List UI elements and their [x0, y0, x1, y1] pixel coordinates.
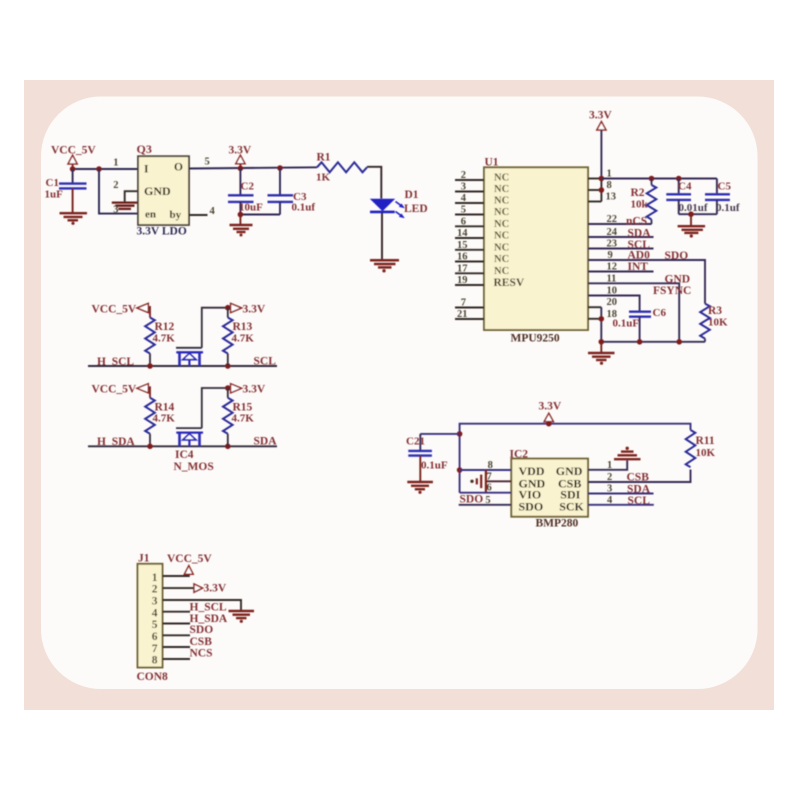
svg-text:20: 20 [607, 297, 618, 308]
svg-text:NC: NC [494, 242, 509, 253]
wire LED to ground [381, 213, 383, 260]
node R13/SCL [225, 363, 231, 369]
pin 23 SCL wire [588, 248, 654, 250]
svg-text:CSB: CSB [627, 471, 650, 483]
pin 6 wire (VIO) [460, 492, 512, 494]
wire Q3 output rail [189, 167, 317, 168]
wire C2-C3 bottom [240, 214, 280, 216]
svg-text:C2: C2 [241, 180, 255, 192]
svg-text:3.3V: 3.3V [539, 401, 562, 413]
J1 pin7 stub [163, 646, 191, 648]
wire R1 to LED [367, 167, 381, 199]
pin 5 stub (SDO) [459, 504, 512, 506]
svg-text:NC: NC [494, 231, 509, 242]
pin 8 wire (VDD) [460, 469, 512, 471]
svg-text:2: 2 [461, 170, 466, 181]
svg-text:21: 21 [457, 309, 468, 320]
white schematic card [41, 97, 758, 690]
svg-text:0.1uf: 0.1uf [292, 201, 316, 213]
resistor R13 [223, 308, 254, 366]
resistor R15 [223, 388, 254, 446]
svg-text:R3: R3 [708, 305, 722, 317]
svg-text:GND: GND [144, 184, 171, 198]
svg-text:8: 8 [488, 460, 493, 471]
capacitor C2 [228, 168, 263, 214]
svg-text:4: 4 [210, 206, 216, 217]
svg-text:0.1uF: 0.1uF [613, 317, 640, 329]
LED D1 [370, 189, 428, 215]
node gnd rail pin11 [676, 339, 682, 345]
power net 3.3V (J1) [194, 583, 227, 595]
svg-text:LED: LED [404, 203, 428, 215]
node pin1/3.3V [599, 176, 605, 182]
svg-text:SDO: SDO [460, 493, 484, 505]
svg-text:R12: R12 [155, 321, 175, 333]
power net VCC_5V (SCL shifter) [92, 303, 151, 317]
svg-text:5: 5 [461, 205, 466, 216]
J1 pin numbers [152, 572, 158, 667]
svg-text:NC: NC [494, 173, 509, 184]
svg-text:6: 6 [487, 483, 492, 494]
pin 2 stub of Q3 [125, 191, 138, 201]
svg-text:1: 1 [152, 572, 158, 584]
svg-text:3: 3 [113, 204, 118, 215]
svg-text:0.01uf: 0.01uf [679, 202, 708, 214]
svg-text:N_MOS: N_MOS [174, 461, 214, 473]
svg-text:10uF: 10uF [239, 201, 263, 213]
capacitor C4 [666, 179, 708, 215]
node gnd rail C6 [637, 339, 643, 345]
capacitor C3 [268, 168, 316, 215]
J1 pin4 stub [163, 611, 191, 613]
wire en branch vertical [99, 169, 138, 214]
sideways ground at pin7 [477, 470, 486, 493]
wire 3.3V rail to C4 C5 [601, 178, 717, 180]
wire VCC rail to Q3 pin1 [73, 168, 138, 170]
node at en branch [96, 166, 102, 172]
node 3.3V/C2 [238, 166, 244, 172]
wire to ground stem [239, 215, 241, 225]
svg-text:3.3V: 3.3V [204, 583, 227, 595]
power net VCC_5V (SDA shifter) [92, 384, 151, 398]
svg-text:4.7K: 4.7K [153, 413, 176, 425]
svg-text:7: 7 [461, 298, 466, 309]
wire 3.3V rail BMP [460, 424, 691, 493]
svg-text:INT: INT [628, 261, 649, 273]
node C3 branch [277, 165, 283, 171]
svg-text:VCC_5V: VCC_5V [167, 553, 212, 565]
svg-text:3.3V: 3.3V [589, 109, 612, 121]
pin names inside IC2 [519, 464, 585, 514]
svg-text:C4: C4 [678, 180, 692, 192]
J1 pin6 stub [163, 634, 191, 636]
wire H_SDA bus [88, 445, 277, 447]
J1 pin8 stub [163, 658, 191, 660]
ground at Q3 pin2 [112, 203, 139, 209]
svg-text:SDA: SDA [628, 227, 652, 239]
J1 pin3 wire to ground [163, 600, 242, 610]
svg-text:NC: NC [494, 266, 509, 277]
ground below C2 [230, 225, 253, 232]
svg-text:7: 7 [487, 471, 492, 482]
power net 3.3V (SDA shifter) [231, 384, 266, 396]
svg-text:IC4: IC4 [175, 449, 194, 461]
svg-text:4: 4 [152, 607, 158, 619]
svg-text:FSYNC: FSYNC [653, 285, 691, 297]
node ground stem C4C5 [688, 211, 694, 217]
svg-text:5: 5 [205, 156, 210, 167]
node R15/SDA [225, 444, 231, 450]
svg-text:R2: R2 [631, 187, 645, 199]
svg-text:SCL: SCL [254, 355, 277, 367]
pin 11 GND wire [588, 283, 679, 342]
ground below D1 [370, 260, 399, 267]
resistor R1 [316, 151, 367, 183]
wire stem to ground MPU [600, 342, 602, 352]
node pin18 [599, 316, 605, 322]
node R14/H_SDA [147, 444, 153, 450]
pin 4 wire SCL [588, 504, 654, 506]
flipped ground at IC2 pin1 [614, 452, 641, 460]
node gate2/3.3V [225, 385, 231, 391]
wire stem to ground [690, 214, 692, 225]
svg-text:4.7K: 4.7K [153, 332, 176, 344]
svg-text:17: 17 [457, 263, 468, 274]
svg-text:19: 19 [457, 275, 468, 286]
svg-text:2: 2 [113, 180, 118, 191]
IC2 BMP280 [510, 448, 589, 529]
svg-text:SDA: SDA [627, 484, 651, 496]
svg-text:MPU9250: MPU9250 [511, 332, 560, 344]
capacitor C1 [45, 169, 87, 213]
pin 9 AD0 wire to R3 [588, 260, 705, 304]
node pin8 branch [457, 467, 463, 473]
node R12/H_SCL [147, 363, 153, 369]
svg-text:6: 6 [461, 216, 466, 227]
mosfet Q (SCL) gate wire [202, 308, 228, 348]
svg-text:GND: GND [665, 273, 691, 285]
svg-text:4.7K: 4.7K [232, 413, 255, 425]
mosfet IC4 gate wire [202, 388, 228, 428]
right pin stubs U1 (1,8,13 bracket) [588, 179, 601, 202]
svg-text:14: 14 [457, 228, 468, 239]
svg-text:I: I [144, 163, 149, 175]
svg-text:en: en [145, 208, 156, 220]
resistor R2 [631, 179, 657, 225]
svg-text:5: 5 [152, 619, 158, 631]
pin 3 wire SDA [588, 493, 654, 495]
svg-text:2: 2 [152, 584, 158, 596]
svg-text:1K: 1K [316, 171, 331, 183]
svg-text:R1: R1 [317, 151, 331, 163]
pin 24 SDA wire [588, 236, 654, 238]
svg-text:NC: NC [494, 207, 509, 218]
right pin numbers IC2 [607, 460, 613, 506]
pin 1 wire (GND) [588, 461, 627, 470]
pin 22 nCS wire [588, 223, 652, 225]
ground below C4 C5 [678, 226, 706, 233]
svg-text:BMP280: BMP280 [536, 518, 579, 530]
left pin stubs U1 [455, 180, 484, 319]
svg-text:NCS: NCS [190, 647, 213, 659]
svg-text:0.1uf: 0.1uf [716, 202, 740, 214]
svg-text:D1: D1 [405, 189, 419, 201]
svg-text:IC2: IC2 [510, 448, 529, 460]
node gnd rail left [599, 339, 605, 345]
node R2 top [649, 176, 655, 182]
svg-text:VCC_5V: VCC_5V [92, 384, 137, 396]
svg-text:7: 7 [152, 643, 158, 655]
wire C21 branch [420, 433, 459, 435]
svg-text:H_SCL: H_SCL [190, 602, 227, 614]
svg-text:VCC_5V: VCC_5V [51, 145, 96, 157]
ground below U1 [588, 353, 615, 360]
svg-text:AD0: AD0 [628, 249, 651, 261]
LED light arrows [396, 202, 405, 219]
svg-text:10K: 10K [708, 316, 728, 328]
resistor R11 [686, 430, 716, 467]
svg-text:Q3: Q3 [137, 142, 152, 156]
ground below C1 [60, 213, 88, 220]
capacitor C5 [705, 179, 740, 215]
svg-text:C1: C1 [46, 177, 59, 189]
svg-text:CSB: CSB [190, 636, 213, 648]
svg-text:8: 8 [607, 180, 612, 191]
svg-text:4.7K: 4.7K [232, 332, 255, 344]
svg-text:R15: R15 [233, 401, 253, 413]
right pin numbers U1 [606, 169, 618, 320]
svg-text:by: by [170, 209, 182, 221]
svg-text:SDO: SDO [519, 499, 544, 513]
J1 pin5 stub [163, 623, 191, 625]
wire H_SCL bus [88, 365, 277, 367]
pin 20 stub [588, 306, 601, 308]
ground below C21 [407, 482, 433, 489]
resistor R3 [700, 304, 728, 342]
node C4 top [676, 176, 682, 182]
node gate/3.3V [225, 305, 231, 311]
svg-text:R11: R11 [696, 435, 715, 447]
power net 3.3V (MPU) [589, 109, 612, 130]
capacitor C21 [406, 434, 448, 481]
svg-text:8: 8 [152, 655, 158, 667]
node 3.3V arrow [546, 421, 552, 427]
svg-text:SCK: SCK [559, 500, 584, 514]
svg-text:3.3V LDO: 3.3V LDO [137, 225, 187, 237]
regulator Q3 [137, 142, 190, 238]
svg-text:J1: J1 [138, 552, 150, 564]
svg-text:VCC_5V: VCC_5V [92, 303, 137, 315]
IC U1 MPU9250 [484, 156, 588, 344]
svg-text:C6: C6 [653, 307, 667, 319]
node C2 ground [238, 212, 244, 218]
svg-text:10k: 10k [631, 198, 649, 210]
svg-text:NC: NC [494, 219, 509, 230]
svg-text:5: 5 [485, 495, 490, 506]
pin 12 INT wire [588, 271, 654, 273]
power net VCC_5V (J1) [167, 553, 212, 574]
NC pin names U1 [494, 173, 509, 277]
J1 pin2 wire to 3.3V [163, 587, 195, 589]
power net 3.3V at regulator output [229, 145, 252, 169]
svg-text:10K: 10K [696, 447, 716, 459]
svg-text:NC: NC [494, 196, 509, 207]
svg-text:U1: U1 [485, 156, 499, 168]
power input net VCC_5V [51, 145, 96, 170]
left pin numbers IC2 [485, 460, 493, 506]
node at C1/VCC [70, 166, 76, 172]
svg-text:SCL: SCL [628, 495, 651, 507]
node C21 branch [457, 431, 463, 437]
svg-text:R13: R13 [233, 321, 253, 333]
svg-text:3: 3 [152, 596, 158, 608]
mosfet IC4 N_MOS [176, 428, 203, 446]
svg-text:R14: R14 [155, 401, 175, 413]
pin 7 stub (GND) [487, 480, 512, 482]
pin 2 wire CSB to R11 [588, 470, 691, 483]
wire C4-C5 bottom [679, 213, 717, 215]
capacitor C6 [613, 307, 667, 342]
svg-text:3.3V: 3.3V [243, 303, 266, 315]
svg-text:16: 16 [457, 252, 468, 263]
wire 20/18 bracket down [600, 307, 602, 342]
svg-text:NC: NC [494, 254, 509, 265]
pin 4 stub [189, 214, 208, 216]
svg-text:3: 3 [461, 182, 466, 193]
svg-text:15: 15 [457, 240, 468, 251]
ground bus wire [601, 341, 705, 343]
left pin numbers U1 [457, 170, 468, 320]
node pin8 [599, 187, 605, 193]
svg-text:CON8: CON8 [137, 671, 169, 683]
svg-text:13: 13 [606, 192, 617, 203]
svg-text:SDA: SDA [254, 436, 278, 448]
power net 3.3V (BMP280) [539, 401, 562, 422]
svg-text:C5: C5 [718, 180, 732, 192]
svg-text:C21: C21 [406, 435, 425, 447]
resistor R14 [145, 398, 175, 447]
svg-text:3.3V: 3.3V [243, 384, 266, 396]
svg-text:nCS: nCS [626, 215, 647, 227]
mosfet Q (SCL) [176, 348, 203, 366]
svg-text:1uF: 1uF [45, 189, 64, 201]
svg-text:O: O [174, 161, 183, 173]
svg-text:RESV: RESV [494, 277, 525, 289]
J1 pin1 wire to VCC_5V [163, 575, 189, 576]
svg-text:4: 4 [461, 193, 467, 204]
connector J1 CON8 [137, 552, 169, 683]
svg-text:6: 6 [152, 631, 158, 643]
wire 3.3V to pin1 rail [600, 130, 602, 179]
ground at J1 pin3 [229, 611, 255, 618]
svg-text:SDO: SDO [190, 624, 214, 636]
svg-text:NC: NC [494, 184, 509, 195]
svg-text:SDO: SDO [665, 250, 689, 262]
svg-text:0.1uF: 0.1uF [421, 460, 448, 472]
power net 3.3V (SCL shifter) [231, 303, 266, 315]
svg-text:1: 1 [113, 158, 118, 169]
pin 10 FSYNC wire to C6 [588, 296, 640, 311]
resistor R12 [145, 318, 175, 367]
pin 18 stub [588, 318, 601, 320]
